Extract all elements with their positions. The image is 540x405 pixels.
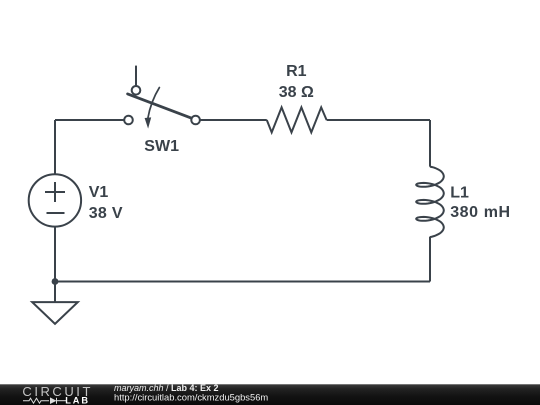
switch terminal circles bbox=[132, 86, 141, 95]
wire bottom rail bbox=[55, 281, 430, 283]
svg-text:SW1: SW1 bbox=[144, 138, 179, 155]
footer bar bbox=[0, 384, 540, 405]
svg-text:380 mH: 380 mH bbox=[450, 204, 511, 221]
svg-text:http://circuitlab.com/ckmzdu5g: http://circuitlab.com/ckmzdu5gbs56m bbox=[114, 392, 268, 403]
wire ground stub bbox=[54, 282, 56, 303]
wire V1 bottom to junction bbox=[54, 227, 56, 281]
svg-text:LAB: LAB bbox=[65, 395, 90, 405]
wire right vertical upper (top rail to coil) bbox=[429, 120, 431, 167]
switch top stub bbox=[135, 66, 137, 86]
switch blade bbox=[128, 94, 192, 118]
svg-text:R1: R1 bbox=[286, 63, 307, 80]
junction dot bbox=[52, 278, 59, 285]
svg-text:38 Ω: 38 Ω bbox=[279, 84, 314, 101]
wire left vertical (top rail to V1) bbox=[54, 120, 56, 174]
switch SW1 bbox=[124, 66, 200, 129]
svg-text:L1: L1 bbox=[450, 185, 469, 202]
voltage source V1 bbox=[29, 174, 81, 226]
ground bbox=[32, 302, 78, 324]
inductor L1 bbox=[416, 167, 444, 238]
svg-text:38 V: 38 V bbox=[89, 205, 123, 222]
CircuitLab logo: schematic squiggle bbox=[23, 398, 66, 404]
wire switch right terminal to resistor bbox=[200, 119, 266, 121]
resistor R1 bbox=[267, 107, 327, 132]
wire top rail (resistor to right corner) bbox=[327, 119, 430, 121]
wire right vertical lower (coil to bottom rail) bbox=[429, 237, 431, 282]
switch actuation arrow bbox=[148, 88, 160, 119]
svg-text:V1: V1 bbox=[89, 184, 109, 201]
wire top-left horizontal bbox=[55, 119, 124, 121]
